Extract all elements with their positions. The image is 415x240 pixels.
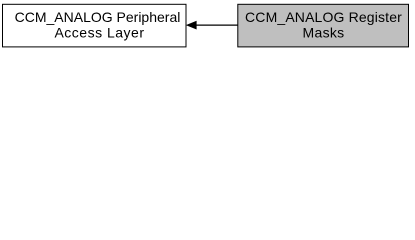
svg-text:CCM_ANALOG Peripheral: CCM_ANALOG Peripheral bbox=[15, 9, 181, 25]
svg-text:Access Layer: Access Layer bbox=[54, 25, 144, 41]
svg-text:CCM_ANALOG Register: CCM_ANALOG Register bbox=[245, 9, 402, 25]
svg-text:Masks: Masks bbox=[303, 25, 345, 41]
